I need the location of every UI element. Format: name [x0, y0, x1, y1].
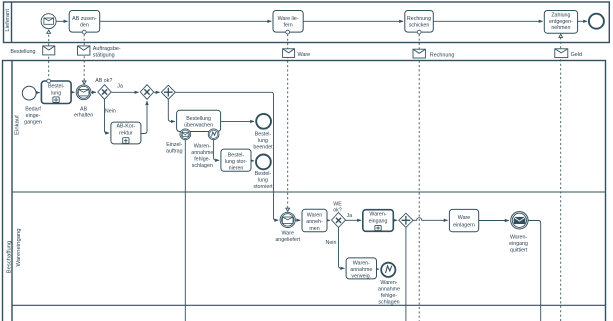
intermediate catch event Ware angeliefert	[275, 212, 300, 243]
wire error boundary to Bestellung stornieren	[214, 140, 220, 161]
wire WE ok Ja to Wareneingang	[346, 219, 362, 221]
svg-text:annahme: annahme	[378, 287, 400, 293]
svg-text:gangen: gangen	[24, 120, 42, 126]
wire quittiert event down right	[528, 221, 541, 321]
svg-text:einlagern: einlagern	[453, 222, 475, 228]
wire merge gateway to parallel gateway	[154, 91, 160, 93]
wire parallel gateway to Bestellung ueberwachen	[168, 99, 175, 121]
start event Bedarf eingegangen	[22, 86, 42, 125]
wire Ware liefern to Rechnung schicken	[303, 20, 403, 22]
call activity Bestellung	[41, 79, 71, 103]
svg-text:eingang: eingang	[509, 241, 528, 247]
svg-text:Bestel-: Bestel-	[228, 153, 245, 159]
svg-text:Nein: Nein	[105, 108, 116, 114]
merge gateway XOR	[140, 85, 153, 100]
svg-text:fehlge-: fehlge-	[381, 293, 397, 299]
wire AB zusenden to Ware liefern	[100, 20, 272, 22]
svg-text:beendet: beendet	[253, 144, 273, 150]
svg-text:Waren: Waren	[307, 212, 322, 218]
pool Lieferant	[4, 2, 610, 43]
message icon Auftragsbestaetigung	[78, 46, 121, 59]
wire Ware einlagern to quittiert event	[479, 220, 509, 222]
svg-text:Waren-: Waren-	[380, 280, 397, 286]
svg-text:erhalten: erhalten	[74, 113, 93, 119]
svg-text:Nein: Nein	[326, 240, 337, 246]
wire Rechnung schicken to Zahlung entgegennehmen	[433, 20, 542, 22]
gateway WE ok? (XOR)	[326, 201, 353, 246]
svg-text:einge-: einge-	[26, 113, 41, 119]
wire gateway AB ok Ja to merge gateway	[112, 91, 139, 93]
svg-text:AB zusen-: AB zusen-	[72, 16, 97, 22]
message flow Auftragsbestaetigung (dashed)	[82, 34, 86, 84]
svg-text:Bestel-: Bestel-	[255, 171, 272, 177]
message icon Rechnung	[413, 49, 454, 58]
task Bestellung stornieren	[221, 149, 251, 172]
svg-text:nehmen: nehmen	[551, 25, 570, 31]
svg-text:eingang: eingang	[369, 218, 388, 224]
svg-text:Rechnung: Rechnung	[430, 53, 455, 59]
task Bestellung ueberwachen	[177, 110, 221, 131]
svg-text:quittiert: quittiert	[510, 247, 528, 253]
svg-text:Lieferant: Lieferant	[5, 9, 11, 32]
svg-text:Auftragsbe-: Auftragsbe-	[93, 46, 121, 52]
svg-text:den: den	[80, 22, 89, 28]
wire ueberwachen to Bestellung beendet	[221, 120, 255, 122]
task AB zusenden	[69, 11, 100, 35]
intermediate catch event AB erhalten	[74, 85, 93, 119]
svg-text:Ware lie-: Ware lie-	[278, 16, 299, 22]
wire Waren annehmen to gateway WE ok	[327, 219, 330, 221]
message icon Geld	[555, 49, 582, 58]
task Zahlung entgegennehmen	[544, 11, 577, 34]
svg-text:Wareneingang: Wareneingang	[16, 228, 22, 266]
svg-text:Bestellung: Bestellung	[186, 116, 211, 122]
svg-text:auftrag: auftrag	[166, 149, 183, 155]
wire start to Bestellung	[36, 92, 40, 94]
error end event Warenannahme fehlgeschlagen	[378, 263, 400, 306]
svg-text:Bedarf: Bedarf	[25, 107, 41, 113]
svg-text:Zahlung: Zahlung	[551, 13, 570, 19]
svg-text:Waren-: Waren-	[194, 143, 211, 149]
wire Ware angeliefert to Waren annehmen	[295, 219, 300, 221]
svg-text:verweig.: verweig.	[351, 274, 371, 280]
wire stornieren to Bestellung storniert	[251, 160, 254, 162]
wire boundary message down (Einzelauftrag)	[184, 140, 186, 321]
lane divider Wareneingang/bottom	[12, 304, 606, 306]
svg-text:annahme: annahme	[350, 267, 372, 273]
intermediate throw event Wareneingang quittiert	[509, 212, 528, 254]
svg-text:ok?: ok?	[333, 208, 342, 214]
svg-text:lung: lung	[51, 90, 61, 96]
end event Bestellung beendet	[253, 114, 273, 150]
task Rechnung schicken	[405, 11, 434, 35]
svg-text:Geld: Geld	[571, 52, 582, 58]
svg-text:überwachen: überwachen	[184, 123, 213, 129]
message flow Rechnung (dashed)	[418, 34, 420, 321]
wire parallel gateway to Ware angeliefert (down right)	[175, 92, 278, 220]
message flow Geld (dashed)	[559, 34, 563, 321]
gateway AB ok? (XOR)	[95, 78, 123, 115]
svg-text:Ja: Ja	[117, 83, 123, 89]
wire parallel gateway down	[405, 227, 407, 321]
lane divider Einkauf/Wareneingang	[12, 191, 606, 193]
wire gateway AB ok Nein to AB-Korrektur	[105, 99, 110, 133]
pool Beschaffung	[3, 61, 606, 321]
task AB-Korrektur	[111, 122, 141, 144]
svg-text:Bestel-: Bestel-	[255, 131, 272, 137]
svg-text:Waren-: Waren-	[353, 261, 370, 267]
svg-text:Waren-: Waren-	[369, 211, 386, 217]
svg-text:AB-Kor-: AB-Kor-	[116, 123, 135, 129]
svg-text:angeliefert: angeliefert	[275, 237, 300, 243]
svg-text:lung: lung	[258, 138, 268, 144]
task Ware einlagern	[449, 209, 478, 231]
message flow Ware (dashed)	[286, 34, 290, 211]
svg-text:Waren-: Waren-	[510, 234, 527, 240]
message icon Ware	[283, 49, 311, 58]
wire Zahlung entgegennehmen to end	[578, 20, 588, 22]
svg-text:lung stor-: lung stor-	[225, 159, 247, 165]
svg-text:Bestel-: Bestel-	[48, 84, 65, 90]
svg-text:Rechnung: Rechnung	[407, 16, 431, 22]
message icon Bestellung	[10, 46, 54, 55]
end event Lieferant	[589, 14, 604, 29]
svg-text:nieren: nieren	[229, 166, 244, 172]
svg-text:Einkauf: Einkauf	[15, 115, 21, 135]
svg-text:Ware: Ware	[281, 231, 294, 237]
svg-text:Bestellung: Bestellung	[10, 49, 35, 55]
wire parallel gateway to Ware einlagern (with jump)	[413, 218, 448, 221]
svg-text:men: men	[309, 226, 319, 232]
wire WE ok Nein to Warenannahme verweigern	[339, 227, 345, 268]
task Warenannahme verweigern	[346, 258, 376, 280]
svg-text:stätigung: stätigung	[93, 52, 115, 58]
svg-text:anneh-: anneh-	[306, 219, 323, 225]
parallel gateway split (Einkauf)	[161, 85, 175, 99]
wire start event to AB zusenden	[56, 20, 68, 22]
svg-text:fehlge-: fehlge-	[194, 156, 210, 162]
svg-text:Beschaffung: Beschaffung	[7, 241, 13, 274]
svg-text:schicken: schicken	[409, 22, 430, 28]
svg-text:rektur: rektur	[119, 131, 133, 137]
svg-text:fern: fern	[284, 22, 293, 28]
svg-text:schlagen: schlagen	[378, 300, 399, 306]
svg-text:Ware: Ware	[458, 215, 471, 221]
wire AB erhalten to gateway AB ok	[91, 91, 96, 93]
wire AB-Korrektur to merge gateway	[141, 101, 147, 134]
boundary message event Einzelauftrag	[166, 129, 191, 155]
start event message (Lieferant)	[41, 14, 56, 29]
parallel gateway join (Wareneingang)	[399, 213, 413, 227]
end event Bestellung storniert	[253, 155, 273, 191]
svg-text:annahme: annahme	[191, 150, 213, 156]
task Ware liefern	[273, 11, 303, 35]
svg-text:lung: lung	[258, 178, 268, 184]
wire verweigern to error end	[377, 268, 380, 270]
svg-text:schlagen: schlagen	[192, 163, 213, 169]
wire Wareneingang to parallel join	[393, 219, 397, 221]
svg-text:Ja: Ja	[347, 213, 353, 219]
svg-text:Einzel-: Einzel-	[166, 142, 182, 148]
svg-text:entgegen-: entgegen-	[549, 19, 573, 25]
svg-text:Ware: Ware	[298, 52, 311, 58]
call activity Wareneingang	[363, 210, 394, 232]
boundary error event	[191, 129, 219, 169]
svg-text:AB: AB	[80, 106, 88, 112]
message flow Bestellung (dashed)	[47, 30, 51, 81]
task Waren annehmen	[302, 209, 327, 232]
svg-text:storniert: storniert	[253, 184, 273, 190]
wire Bestellung to AB erhalten	[71, 91, 75, 93]
svg-text:WE: WE	[333, 201, 342, 207]
svg-text:AB ok?: AB ok?	[95, 78, 112, 84]
